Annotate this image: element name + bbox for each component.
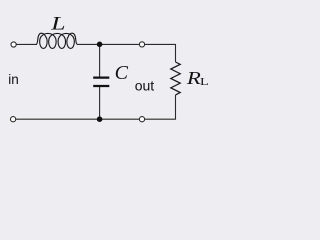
- svg-text:L: L: [200, 76, 209, 87]
- svg-text:in: in: [8, 72, 19, 87]
- svg-text:out: out: [135, 78, 155, 94]
- svg-text:L: L: [50, 13, 65, 34]
- svg-text:R: R: [186, 69, 202, 88]
- svg-text:C: C: [115, 62, 129, 84]
